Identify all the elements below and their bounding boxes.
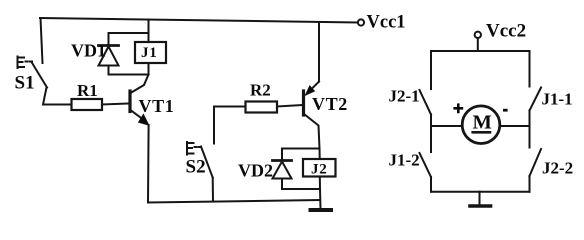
wire to ground	[319, 189, 322, 209]
svg-text:M: M	[473, 112, 492, 134]
wire J2 stubs	[319, 149, 321, 160]
wire bridge left lower	[430, 177, 432, 192]
wire right mid	[529, 111, 531, 127]
wire VD1-J1 top	[109, 32, 149, 34]
wire bridge left upper	[430, 51, 432, 89]
ground right	[470, 204, 491, 208]
wire motor left	[431, 125, 461, 127]
svg-text:R2: R2	[250, 81, 271, 100]
ground left	[311, 208, 332, 212]
wire VT2 emitter up to rail	[318, 22, 320, 82]
wire S2/R2 junction	[214, 107, 246, 144]
wire bridge top	[431, 50, 530, 52]
wire top rail Vcc1	[40, 18, 358, 23]
wire left mid	[430, 115, 432, 127]
label minus	[503, 109, 508, 112]
wire bridge right lower	[529, 176, 531, 192]
transistor VT2 emitter with arrow (PNP)	[312, 82, 320, 90]
wire VT1 emitter down	[147, 125, 150, 203]
svg-text:J2-1: J2-1	[389, 87, 420, 106]
wire VD1-J1 bottom	[109, 74, 149, 76]
relay coil J2	[303, 159, 336, 177]
label plus	[453, 103, 463, 113]
wire J1 branch from rail	[148, 20, 150, 42]
contact J1-1 lever	[530, 88, 542, 111]
wire Vcc2 stub	[477, 38, 479, 51]
svg-text:S1: S1	[15, 73, 35, 94]
svg-text:VD1: VD1	[71, 41, 106, 61]
wire motor right	[501, 125, 530, 127]
diode VD1	[99, 33, 119, 75]
svg-text:Vcc1: Vcc1	[367, 13, 406, 33]
transistor VT2 base bar	[302, 91, 305, 115]
svg-text:Vcc2: Vcc2	[486, 21, 526, 42]
switch S1 lever	[32, 62, 48, 88]
svg-text:J1: J1	[141, 45, 158, 61]
transistor VT2 collector	[304, 114, 320, 149]
wire R2 to VT2 base	[277, 105, 302, 107]
diode VD2	[273, 149, 292, 190]
switch S2 lever	[201, 147, 213, 178]
contact J1-2 lever	[420, 153, 432, 177]
wire left below motor	[430, 126, 432, 152]
svg-text:J1-1: J1-1	[542, 90, 573, 109]
wire bottom rail	[148, 200, 320, 203]
contact J2-2 lever	[530, 149, 542, 176]
svg-text:VT1: VT1	[139, 96, 175, 116]
node Vcc1 terminal	[358, 19, 364, 25]
switch S2 actuator E	[187, 142, 201, 155]
svg-text:J2: J2	[311, 162, 328, 178]
wire S1 drop from rail	[41, 18, 43, 63]
wire VD2-J2 top	[282, 148, 320, 150]
transistor VT1 emitter with arrow	[131, 110, 143, 119]
wire ground stub right	[479, 192, 481, 205]
transistor VT1 base bar	[128, 91, 131, 112]
svg-text:J2-2: J2-2	[542, 159, 573, 178]
wire J1 box to collector	[148, 63, 150, 75]
wire R1 to VT1 base	[102, 104, 129, 105]
node Vcc2 terminal	[475, 32, 481, 38]
motor M underline	[473, 131, 490, 134]
svg-text:R1: R1	[77, 81, 98, 100]
wire S1 to R1	[43, 88, 72, 105]
motor M circle	[462, 106, 500, 144]
transistor VT1 collector	[131, 75, 149, 94]
wire bridge bottom	[431, 191, 530, 193]
wire VD2-J2 bottom	[282, 188, 320, 190]
resistor R2	[246, 102, 278, 113]
wire S2 to bottom rail	[212, 178, 214, 202]
svg-text:J1-2: J1-2	[389, 151, 420, 170]
wire bridge right upper	[529, 51, 531, 87]
resistor R1	[72, 99, 103, 110]
relay coil J1	[135, 42, 166, 63]
wire right below motor	[529, 126, 531, 148]
svg-text:VT2: VT2	[312, 94, 348, 114]
switch S1 actuator E	[18, 57, 33, 69]
svg-text:S2: S2	[186, 157, 206, 178]
svg-text:VD2: VD2	[238, 161, 273, 181]
contact J2-1 lever	[420, 90, 432, 115]
